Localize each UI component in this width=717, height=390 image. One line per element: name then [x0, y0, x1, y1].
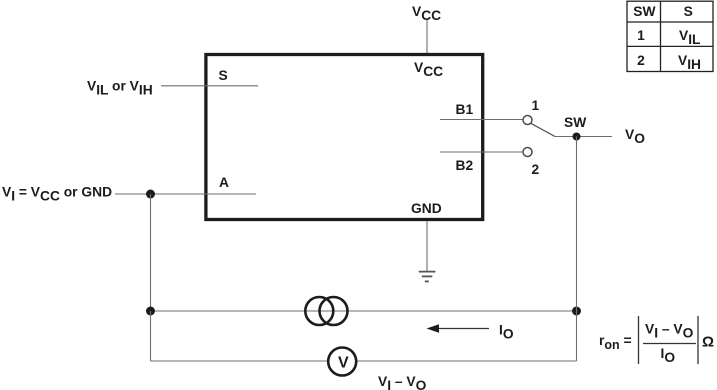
- junction dot left current-source row: [146, 307, 155, 316]
- svg-text:VO: VO: [625, 127, 645, 146]
- wire B1 pin: [440, 119, 523, 121]
- switch pole junction dot: [573, 133, 581, 141]
- svg-text:Ω: Ω: [702, 334, 714, 351]
- svg-text:GND: GND: [411, 201, 442, 216]
- wire current-source row horizontal: [151, 310, 577, 312]
- wire VCC supply to DUT: [426, 20, 428, 53]
- wire B2 pin: [440, 151, 523, 153]
- wire S input pin: [161, 85, 258, 87]
- voltmeter V1: [328, 348, 356, 376]
- equation ron: [599, 316, 714, 365]
- svg-text:VI – VO: VI – VO: [645, 322, 694, 341]
- svg-text:VI – VO: VI – VO: [378, 374, 427, 390]
- wire voltmeter row horizontal: [151, 360, 577, 362]
- svg-text:S: S: [219, 68, 228, 83]
- svg-text:VIL: VIL: [679, 28, 700, 47]
- svg-text:IO: IO: [661, 346, 676, 365]
- svg-text:2: 2: [532, 162, 540, 177]
- switch throw contact 2: [523, 148, 532, 157]
- svg-text:VCC: VCC: [414, 60, 443, 79]
- wire GND pin down: [426, 221, 428, 272]
- svg-text:1: 1: [532, 98, 540, 113]
- arrow IO direction: [427, 324, 490, 332]
- switch throw contact 1: [523, 116, 532, 125]
- svg-text:B1: B1: [456, 102, 474, 117]
- svg-text:ron =: ron =: [599, 333, 632, 352]
- svg-text:VI = VCC or GND: VI = VCC or GND: [2, 184, 112, 203]
- svg-text:1: 1: [637, 28, 645, 43]
- svg-text:SW: SW: [633, 4, 656, 19]
- svg-text:S: S: [684, 4, 693, 19]
- junction dot right current-source row: [572, 307, 581, 316]
- svg-text:A: A: [219, 175, 229, 190]
- wire switch pole to VO: [555, 136, 612, 138]
- svg-text:VIL or VIH: VIL or VIH: [87, 79, 153, 98]
- wire right vertical from switch pole: [576, 137, 578, 312]
- node A junction dot: [146, 190, 155, 199]
- svg-text:2: 2: [637, 53, 645, 68]
- wire left vertical from node A: [150, 194, 152, 311]
- svg-text:V: V: [338, 355, 349, 372]
- current source IO (two circles): [305, 297, 347, 325]
- switch SW lever: [531, 123, 555, 136]
- svg-text:B2: B2: [456, 158, 474, 173]
- svg-text:VIH: VIH: [678, 53, 701, 72]
- wire A input pin: [115, 193, 256, 195]
- svg-text:SW: SW: [564, 115, 587, 130]
- wire left vertical lower: [150, 311, 152, 361]
- ground symbol: [419, 272, 436, 282]
- DUT box: [206, 55, 483, 220]
- svg-text:IO: IO: [499, 323, 514, 342]
- switch position table: [627, 1, 713, 72]
- wire right vertical lower: [576, 311, 578, 361]
